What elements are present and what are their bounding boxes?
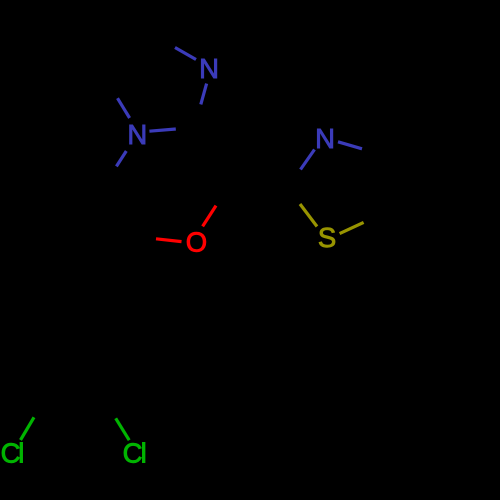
svg-text:N: N (315, 123, 335, 154)
svg-text:S: S (318, 222, 336, 253)
svg-text:O: O (186, 227, 207, 258)
svg-text:l: l (18, 438, 24, 469)
svg-text:N: N (199, 53, 219, 84)
svg-text:l: l (141, 438, 147, 469)
svg-text:C: C (123, 438, 143, 469)
svg-text:N: N (127, 119, 147, 150)
